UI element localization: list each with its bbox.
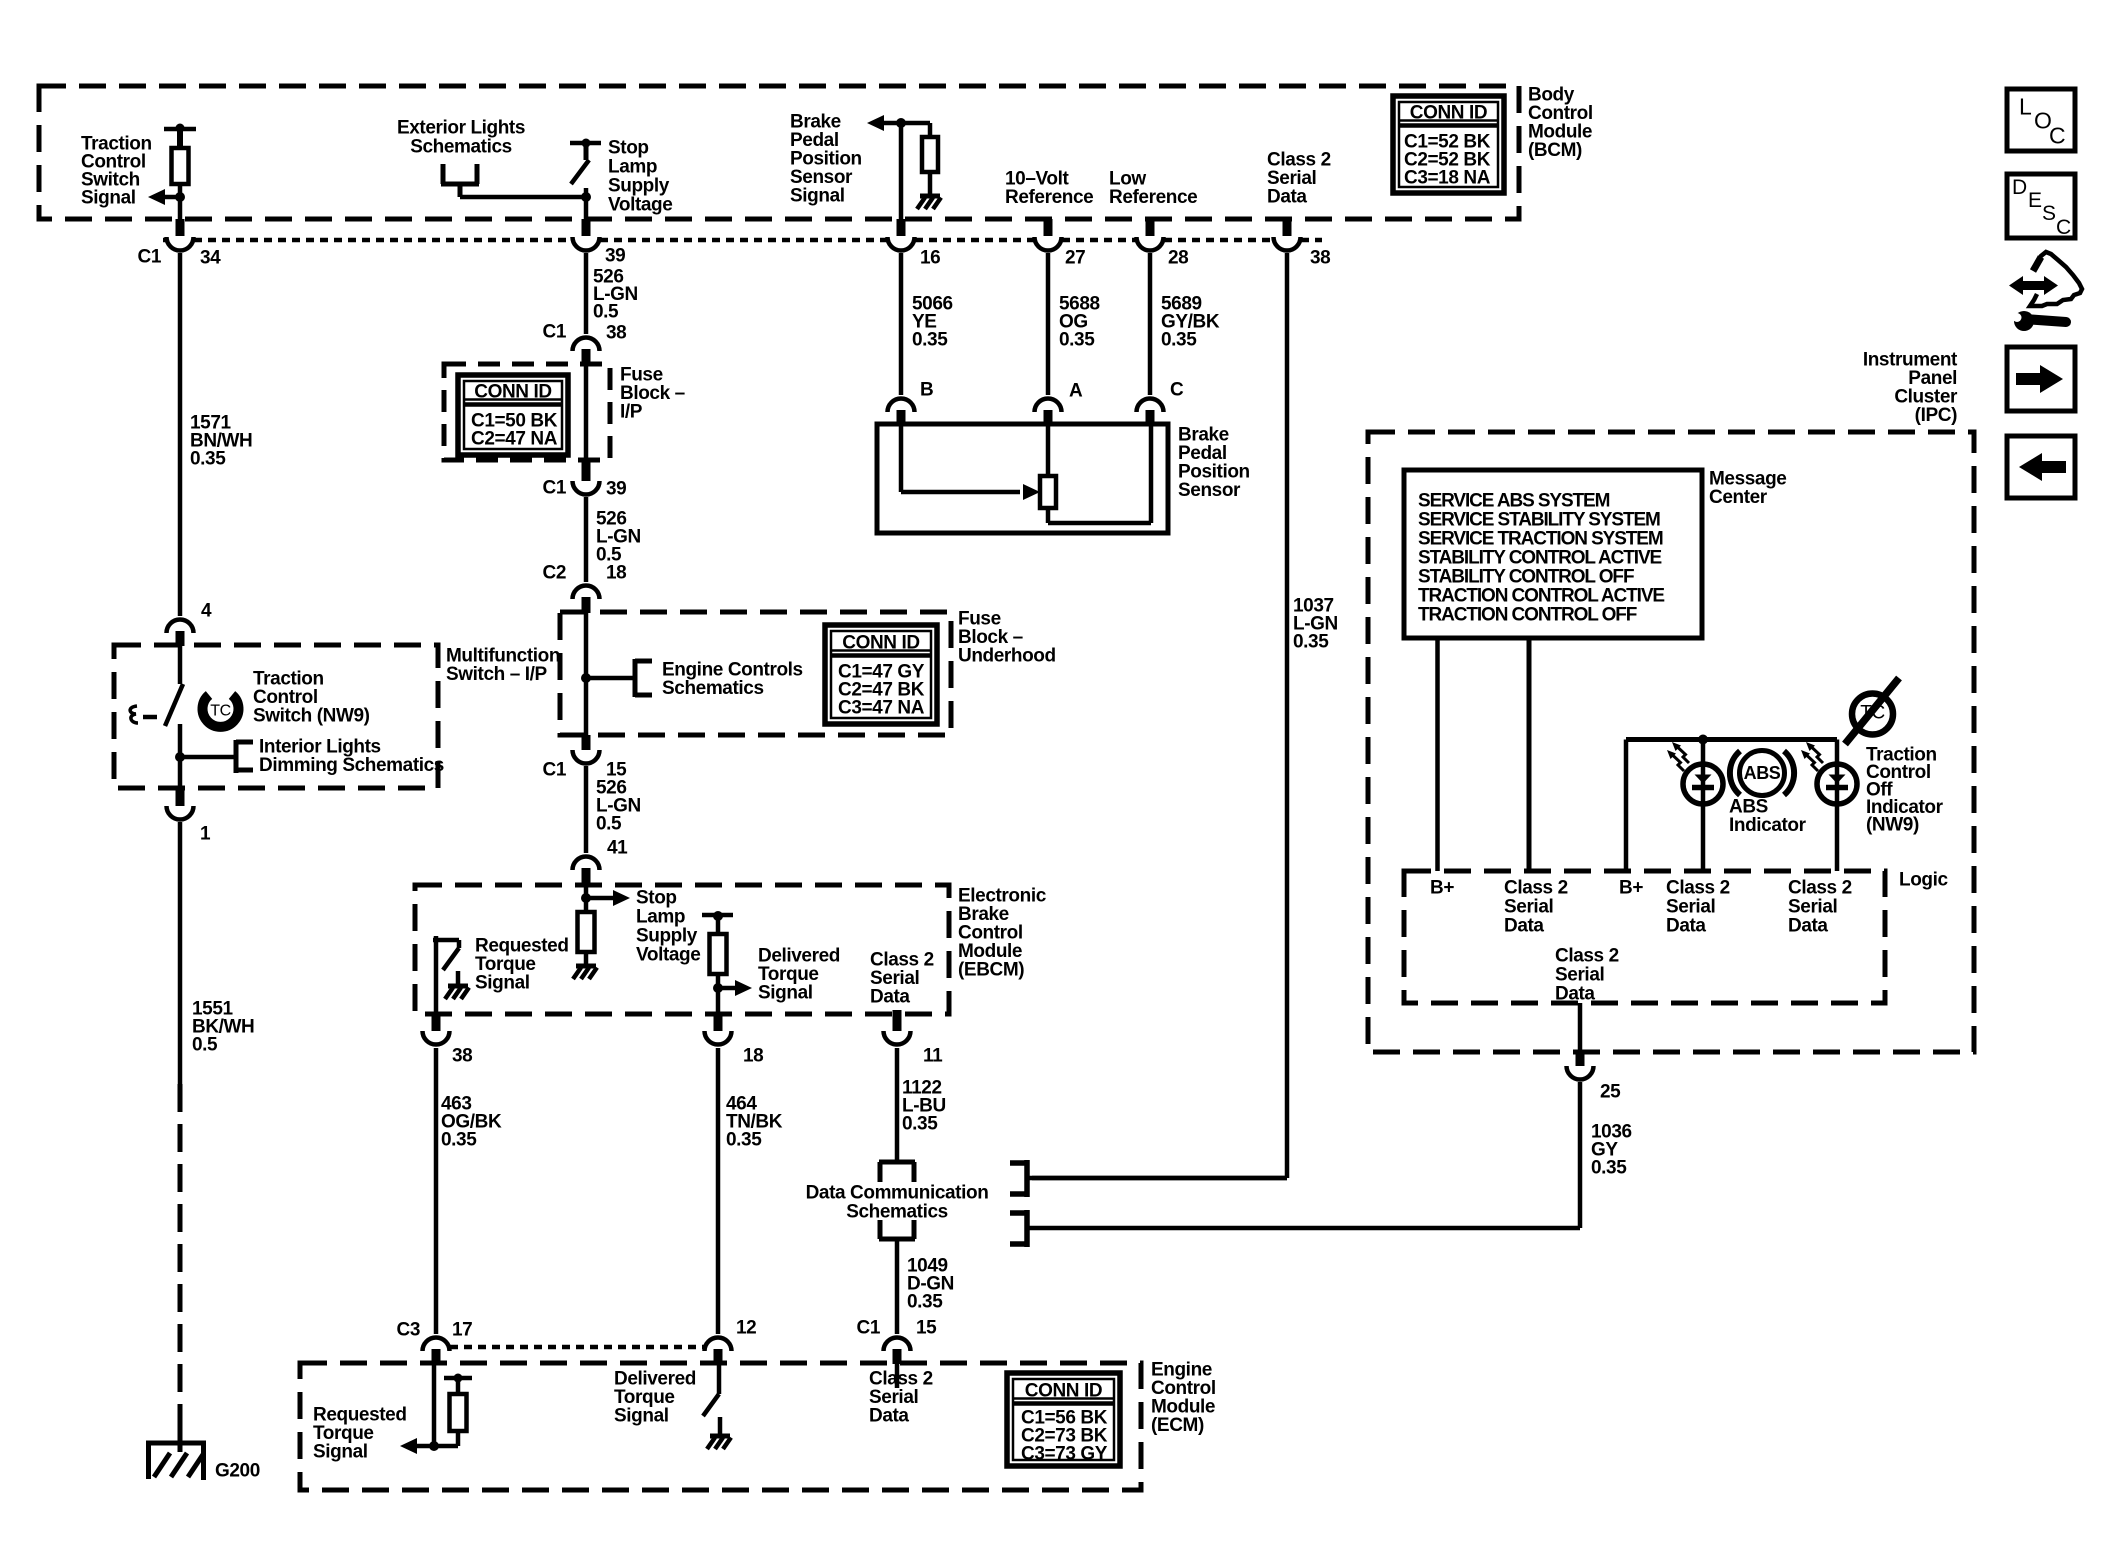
wire 463 OG/BK 0.35 <box>434 1048 439 1334</box>
icon back arrow button <box>2007 436 2075 498</box>
svg-text:38: 38 <box>1310 248 1330 269</box>
label Class 2 Serial Data (logic left) <box>1504 878 1568 937</box>
wire 1551 dashed part to ground <box>178 1084 183 1450</box>
off-page bracket data communication (right upper) <box>1010 1160 1027 1197</box>
svg-text:Signal: Signal <box>790 186 845 207</box>
label Engine Controls Schematics <box>662 660 803 700</box>
stop lamp switch (BCM internal) <box>570 139 601 220</box>
off-page bracket data communication (bottom) <box>879 1220 915 1239</box>
label Traction Control Switch (NW9) <box>253 669 370 727</box>
svg-text:Signal: Signal <box>475 973 530 994</box>
off-page bracket Interior Lights Dimming Schematics <box>236 740 253 773</box>
svg-text:C2=47 NA: C2=47 NA <box>471 429 558 450</box>
Logic dashed box (IPC) <box>1404 871 1885 1003</box>
arrow traction control switch signal (left) <box>148 189 185 205</box>
svg-text:34: 34 <box>200 248 221 269</box>
svg-text:Switch – I/P: Switch – I/P <box>446 664 548 685</box>
svg-text:39: 39 <box>605 246 625 267</box>
svg-text:TC: TC <box>210 703 231 720</box>
svg-text:C: C <box>2056 216 2071 239</box>
label Traction Control Off Indicator (NW9) <box>1866 745 1944 836</box>
svg-text:C3=18 NA: C3=18 NA <box>1404 168 1491 189</box>
LED light rays (TC off indicator) <box>1801 742 1823 771</box>
label 10-Volt Reference <box>1005 169 1093 209</box>
label Stop Lamp Supply Voltage (EBCM) <box>636 888 700 966</box>
label Electronic Brake Control Module (EBCM) <box>958 886 1047 981</box>
svg-text:C2: C2 <box>543 563 567 584</box>
svg-text:Exterior Lights: Exterior Lights <box>397 118 525 139</box>
sensor internal wiring and wiper arrow <box>901 424 1040 500</box>
svg-text:0.35: 0.35 <box>726 1130 762 1151</box>
svg-text:Underhood: Underhood <box>958 646 1056 667</box>
resistor (BCM brake pedal input) <box>922 123 938 194</box>
svg-text:CONN ID: CONN ID <box>842 633 919 654</box>
LED ABS indicator <box>1683 740 1723 872</box>
wire 1571 BN/WH 0.35 <box>178 253 183 616</box>
svg-text:Data: Data <box>1267 187 1307 208</box>
label Class 2 Serial Data (logic bottom) <box>1555 946 1619 1005</box>
svg-text:B: B <box>920 380 933 401</box>
label B+ (right) <box>1619 878 1643 899</box>
svg-text:C1: C1 <box>857 1318 881 1339</box>
svg-text:Class 2: Class 2 <box>1555 946 1619 967</box>
arrow delivered torque signal (EBCM) <box>713 980 752 996</box>
connector C2 pin 18 <box>543 563 627 613</box>
svg-text:Voltage: Voltage <box>636 945 700 966</box>
label Traction Control Switch Signal <box>81 134 152 209</box>
svg-text:0.35: 0.35 <box>907 1292 943 1313</box>
svg-text:28: 28 <box>1168 248 1188 269</box>
Message Center box <box>1404 470 1702 638</box>
svg-text:0.5: 0.5 <box>593 302 619 323</box>
svg-text:SERVICE TRACTION SYSTEM: SERVICE TRACTION SYSTEM <box>1418 529 1663 550</box>
svg-text:Data: Data <box>1555 984 1595 1005</box>
ground (EBCM requested torque) <box>445 971 469 999</box>
svg-text:I/P: I/P <box>620 402 643 423</box>
wire data bus to IPC pin 25 <box>1027 1226 1580 1231</box>
svg-text:C1: C1 <box>543 322 567 343</box>
label Requested Torque Signal (ECM) <box>313 1405 407 1463</box>
EBCM delivered torque contact bar <box>702 911 733 934</box>
svg-text:CONN ID: CONN ID <box>474 382 551 403</box>
connector pin 41 (EBCM) <box>573 838 629 886</box>
wire data bus to BCM class 2 wire <box>1027 1176 1287 1181</box>
wire 464 TN/BK 0.35 <box>716 1048 721 1334</box>
ABS indicator symbol <box>1730 751 1794 796</box>
svg-text:SERVICE STABILITY SYSTEM: SERVICE STABILITY SYSTEM <box>1418 510 1660 531</box>
wire message center B+ to logic <box>1435 638 1440 871</box>
svg-text:Dimming Schematics: Dimming Schematics <box>259 755 444 776</box>
svg-text:Reference: Reference <box>1109 187 1197 208</box>
label Logic <box>1899 870 1948 891</box>
Engine Control Module (ECM) dashed box <box>300 1363 1141 1490</box>
BCM connector dotted line <box>163 238 1322 243</box>
svg-text:Center: Center <box>1709 487 1768 508</box>
label Class 2 Serial Data (EBCM) <box>870 950 934 1008</box>
connector C1 pin 39 (fuse block I/P out) <box>543 460 627 500</box>
svg-text:Signal: Signal <box>614 1406 669 1427</box>
label 1122 L-BU 0.35 <box>902 1078 946 1135</box>
svg-text:0.5: 0.5 <box>192 1035 218 1056</box>
svg-text:Logic: Logic <box>1899 870 1948 891</box>
svg-text:12: 12 <box>736 1318 756 1339</box>
svg-text:STABILITY CONTROL OFF: STABILITY CONTROL OFF <box>1418 567 1634 588</box>
wire 5688 OG <box>1046 253 1051 395</box>
wire BCM pin16 internal <box>899 123 904 236</box>
svg-text:Data: Data <box>1504 916 1544 937</box>
svg-text:Data Communication: Data Communication <box>806 1183 989 1204</box>
off-page bracket data communication (top) <box>879 1162 915 1182</box>
svg-text:Serial: Serial <box>1666 897 1715 918</box>
svg-text:(EBCM): (EBCM) <box>958 960 1024 981</box>
svg-text:CONN ID: CONN ID <box>1025 1381 1102 1402</box>
off-page bracket Engine Controls Schematics <box>635 659 652 697</box>
svg-text:Voltage: Voltage <box>608 195 672 216</box>
label Body Control Module (BCM) <box>1528 85 1593 162</box>
connector pin 11 (EBCM out) <box>884 1010 944 1067</box>
svg-text:Serial: Serial <box>1504 897 1553 918</box>
arrow requested torque signal (ECM) <box>400 1438 434 1454</box>
wire 1037 L-GN 0.35 <box>1032 253 1287 1178</box>
label Engine Control Module (ECM) <box>1151 1360 1216 1437</box>
LED light rays (ABS indicator) <box>1667 742 1689 771</box>
icon vehicle data / wrench <box>2009 252 2082 331</box>
svg-text:Signal: Signal <box>81 188 136 209</box>
CONN ID table (Fuse Block Underhood) C1=47 GY C2=47 BK C3=47 NA <box>825 625 937 724</box>
connector pin 25 (IPC) <box>1567 1066 1622 1103</box>
svg-text:Data: Data <box>1788 916 1828 937</box>
wire 1036 GY 0.35 <box>1578 1082 1583 1228</box>
wire message center class 2 serial data to logic <box>1527 638 1532 871</box>
svg-text:1: 1 <box>200 824 211 845</box>
label 463 OG/BK 0.35 <box>441 1094 502 1151</box>
label Data Communication Schematics <box>806 1183 989 1223</box>
svg-text:S: S <box>2042 202 2056 225</box>
svg-text:CONN ID: CONN ID <box>1410 103 1487 124</box>
svg-text:E: E <box>2028 189 2042 212</box>
svg-text:G200: G200 <box>215 1461 260 1482</box>
svg-text:(NW9): (NW9) <box>1866 815 1919 836</box>
label Message Center <box>1709 469 1786 509</box>
label Instrument Panel Cluster (IPC) <box>1863 350 1958 427</box>
svg-text:Data: Data <box>1666 916 1706 937</box>
wire 5066 YE <box>899 253 904 395</box>
label Stop Lamp Supply Voltage (BCM) <box>608 138 672 216</box>
Message Center display text <box>1418 491 1664 626</box>
svg-text:Class 2: Class 2 <box>1504 878 1568 899</box>
svg-text:Schematics: Schematics <box>846 1202 948 1223</box>
svg-text:TRACTION CONTROL ACTIVE: TRACTION CONTROL ACTIVE <box>1418 586 1664 607</box>
svg-text:(BCM): (BCM) <box>1528 140 1582 161</box>
svg-text:15: 15 <box>916 1318 937 1339</box>
label 5066 YE 0.35 <box>912 294 953 351</box>
svg-text:18: 18 <box>743 1046 763 1067</box>
connector pin 4 (TC switch) <box>167 601 213 646</box>
svg-text:0.35: 0.35 <box>1591 1158 1627 1179</box>
connector C1 pin 15 (ECM) <box>857 1318 938 1364</box>
label G200 <box>215 1461 260 1482</box>
wire to engine controls bracket <box>586 676 635 681</box>
svg-text:Schematics: Schematics <box>662 678 764 699</box>
label Class 2 Serial Data (BCM) <box>1267 150 1331 208</box>
svg-text:ABS: ABS <box>1744 763 1781 783</box>
svg-text:(IPC): (IPC) <box>1915 405 1957 426</box>
CONN ID table (BCM) C1=52 BK C2=52 BK C3=18 NA <box>1393 96 1504 193</box>
svg-text:D: D <box>2012 176 2027 199</box>
off-page bracket data communication (right lower) <box>1010 1210 1027 1247</box>
svg-text:Reference: Reference <box>1005 187 1093 208</box>
svg-text:STABILITY CONTROL ACTIVE: STABILITY CONTROL ACTIVE <box>1418 548 1662 569</box>
label 464 TN/BK 0.35 <box>726 1094 783 1151</box>
LED traction control off indicator <box>1817 764 1857 871</box>
svg-text:Class 2: Class 2 <box>1788 878 1852 899</box>
label 1571 BN/WH 0.35 <box>190 413 252 470</box>
ECM connector dotted line <box>450 1345 704 1350</box>
wire 526 L-GN to fuse block <box>584 253 589 334</box>
wire through fuse block I/P <box>584 365 589 460</box>
svg-text:41: 41 <box>607 838 628 859</box>
svg-text:0.35: 0.35 <box>1293 632 1329 653</box>
icon LOC button <box>2007 89 2075 151</box>
connector pin 38 (EBCM out) <box>423 1014 473 1067</box>
svg-text:SERVICE ABS SYSTEM: SERVICE ABS SYSTEM <box>1418 491 1610 512</box>
Traction Control Switch (NW9) dashed box <box>114 645 438 788</box>
potentiometer (brake pedal position sensor) <box>1040 424 1151 523</box>
svg-text:C1: C1 <box>543 760 567 781</box>
svg-text:TRACTION CONTROL OFF: TRACTION CONTROL OFF <box>1418 605 1637 626</box>
connector pin 18 (EBCM out) <box>705 1014 764 1067</box>
label 1036 GY 0.35 <box>1591 1122 1632 1179</box>
svg-text:Supply: Supply <box>608 176 670 197</box>
ground (BCM brake pedal input) <box>917 196 941 209</box>
wire TC switch to pin 1 <box>175 724 185 788</box>
connector C1 pin 28 <box>1137 219 1189 269</box>
svg-text:11: 11 <box>923 1046 943 1067</box>
svg-text:0.35: 0.35 <box>1161 330 1197 351</box>
svg-text:Data: Data <box>870 987 910 1008</box>
svg-text:18: 18 <box>606 563 626 584</box>
ECM requested torque resistor network <box>429 1364 472 1451</box>
svg-text:0.5: 0.5 <box>596 814 622 835</box>
EBCM requested torque switch <box>433 936 459 1014</box>
label Brake Pedal Position Sensor Signal <box>790 112 862 207</box>
svg-text:38: 38 <box>606 323 626 344</box>
svg-text:27: 27 <box>1065 248 1085 269</box>
wire 1551 BK/WH 0.5 solid part <box>178 822 183 1084</box>
wire 5689 GY/BK <box>1148 253 1153 395</box>
label Class 2 Serial Data (logic middle) <box>1666 878 1730 937</box>
svg-text:0.35: 0.35 <box>912 330 948 351</box>
Fuse Block - I/P dashed box <box>444 364 610 460</box>
wire class 2 serial data into ECM <box>895 1364 900 1388</box>
CONN ID table (ECM) C1=56 BK C2=73 BK C3=73 GY <box>1007 1373 1120 1466</box>
svg-text:Switch (NW9): Switch (NW9) <box>253 706 370 727</box>
svg-text:38: 38 <box>452 1046 472 1067</box>
label Brake Pedal Position Sensor <box>1178 425 1250 502</box>
svg-text:Supply: Supply <box>636 926 698 947</box>
label Fuse Block - Underhood <box>958 609 1056 667</box>
label Class 2 Serial Data (ECM) <box>869 1369 933 1427</box>
ground (EBCM stop lamp) <box>573 966 597 979</box>
connector C3 pin 17 (ECM) <box>397 1320 473 1364</box>
label 1037 L-GN 0.35 <box>1293 596 1338 653</box>
connector C1 pin 38 (BCM) <box>1274 219 1331 269</box>
svg-text:C: C <box>2049 123 2065 149</box>
label 1049 D-GN 0.35 <box>907 1256 954 1313</box>
label Fuse Block - I/P <box>620 365 685 423</box>
connector pin C (brake pedal position sensor) <box>1137 380 1185 425</box>
svg-text:25: 25 <box>1600 1082 1621 1103</box>
icon DESC button <box>2007 174 2075 239</box>
svg-text:0.35: 0.35 <box>902 1114 938 1135</box>
ground (ECM delivered torque) <box>707 1417 731 1449</box>
connector pin 12 (ECM) <box>705 1318 757 1364</box>
label Multifunction Switch - I/P <box>446 646 560 686</box>
wire exterior lights bracket to stop lamp switch <box>460 195 586 200</box>
wire to interior lights dimming bracket <box>180 755 236 760</box>
label Class 2 Serial Data (logic right) <box>1788 878 1852 937</box>
TC off icon (circle slash) <box>1845 678 1899 744</box>
svg-text:Lamp: Lamp <box>636 907 685 928</box>
connector pin B (brake pedal position sensor) <box>888 380 934 425</box>
CONN ID table (Fuse Block I/P) C1=50 BK C2=47 NA <box>458 375 568 455</box>
connector pin 1 (TC switch) <box>167 788 212 845</box>
wire 526 to EBCM <box>584 766 589 853</box>
svg-text:0.35: 0.35 <box>190 449 226 470</box>
connector C1 pin 16 <box>888 237 941 269</box>
svg-text:Signal: Signal <box>758 983 813 1004</box>
svg-text:Data: Data <box>869 1406 909 1427</box>
svg-text:C3=73 GY: C3=73 GY <box>1021 1444 1108 1465</box>
label Requested Torque Signal (EBCM) <box>475 936 569 994</box>
resistor (EBCM delivered torque) <box>710 934 727 1014</box>
wire indicator supply bus <box>1626 735 1837 872</box>
svg-text:C3=47 NA: C3=47 NA <box>838 698 925 719</box>
label ABS Indicator <box>1729 797 1807 837</box>
label 5689 GY/BK 0.35 <box>1161 294 1220 351</box>
Instrument Panel Cluster (IPC) dashed box <box>1368 432 1974 1052</box>
svg-text:Indicator: Indicator <box>1729 815 1807 836</box>
label B+ (left) <box>1430 878 1454 899</box>
connector C1 pin 27 <box>1035 219 1086 269</box>
Electronic Brake Control Module (EBCM) dashed box <box>415 885 949 1014</box>
Body Control Module (BCM) dashed box <box>39 86 1519 219</box>
svg-text:0.35: 0.35 <box>441 1130 477 1151</box>
resistor (EBCM stop lamp) <box>578 912 595 965</box>
wire 526 to multifunction switch <box>584 497 589 582</box>
svg-text:C: C <box>1170 380 1184 401</box>
svg-text:Class 2: Class 2 <box>1666 878 1730 899</box>
connector C1 pin 38 (fuse block I/P) <box>543 322 627 365</box>
off-page bracket Exterior Lights Schematics <box>441 164 479 197</box>
svg-text:C1: C1 <box>543 478 567 499</box>
svg-text:Sensor: Sensor <box>1178 480 1241 501</box>
label Low Reference <box>1109 169 1197 209</box>
svg-text:L: L <box>2019 94 2032 120</box>
label Interior Lights Dimming Schematics <box>259 737 444 777</box>
wire 1122 L-BU 0.35 <box>895 1048 900 1162</box>
svg-text:39: 39 <box>606 479 626 500</box>
wire logic to IPC pin 25 <box>1578 1003 1583 1066</box>
label Delivered Torque Signal (EBCM) <box>758 946 840 1004</box>
EBCM stop lamp supply voltage junction and arrow <box>581 886 630 912</box>
connector C1 pin 15 <box>543 735 628 781</box>
label Delivered Torque Signal (ECM) <box>614 1369 696 1427</box>
label 1551 BK/WH 0.5 <box>192 999 254 1056</box>
svg-text:0.35: 0.35 <box>1059 330 1095 351</box>
TC icon (traction control switch) <box>203 695 239 727</box>
svg-text:C1: C1 <box>138 247 162 268</box>
svg-text:16: 16 <box>920 248 940 269</box>
resistor (traction control switch signal, BCM internal) <box>164 124 196 198</box>
svg-text:B+: B+ <box>1619 878 1643 899</box>
icon next arrow button <box>2007 347 2075 411</box>
svg-text:Lamp: Lamp <box>608 157 657 178</box>
wire BCM pin34 internal <box>178 197 183 236</box>
switch actuator dashes <box>130 706 157 723</box>
ground G200 <box>146 1432 206 1480</box>
ECM delivered torque switch <box>703 1364 719 1416</box>
svg-text:Serial: Serial <box>1788 897 1837 918</box>
connector pin A (brake pedal position sensor) <box>1035 381 1084 425</box>
svg-text:B+: B+ <box>1430 878 1454 899</box>
svg-text:C3: C3 <box>397 1320 421 1341</box>
traction control switch contact and blade <box>165 646 183 726</box>
svg-text:Stop: Stop <box>636 888 677 909</box>
connector C1 pin 39 <box>573 219 626 267</box>
wire 1049 D-GN 0.35 <box>895 1239 900 1334</box>
svg-text:(ECM): (ECM) <box>1151 1415 1204 1436</box>
label 526 L-GN 0.5 (middle) <box>596 509 641 566</box>
svg-text:Stop: Stop <box>608 138 649 159</box>
svg-text:Serial: Serial <box>1555 965 1604 986</box>
Brake Pedal Position Sensor box <box>877 424 1168 533</box>
label Exterior Lights Schematics <box>397 118 525 158</box>
svg-text:Signal: Signal <box>313 1442 368 1463</box>
svg-text:A: A <box>1069 381 1083 402</box>
label 526 L-GN 0.5 (lower) <box>596 778 641 835</box>
connector C1 pin 34 <box>138 237 222 269</box>
arrow brake pedal position sensor signal <box>867 115 930 131</box>
svg-text:4: 4 <box>201 601 212 622</box>
Fuse Block - Underhood dashed box <box>560 612 951 735</box>
label 5688 OG 0.35 <box>1059 294 1100 351</box>
label 526 L-GN 0.5 (upper) <box>593 267 638 323</box>
svg-text:Schematics: Schematics <box>410 137 512 158</box>
wire through fuse block underhood <box>581 613 591 735</box>
svg-text:17: 17 <box>452 1320 472 1341</box>
